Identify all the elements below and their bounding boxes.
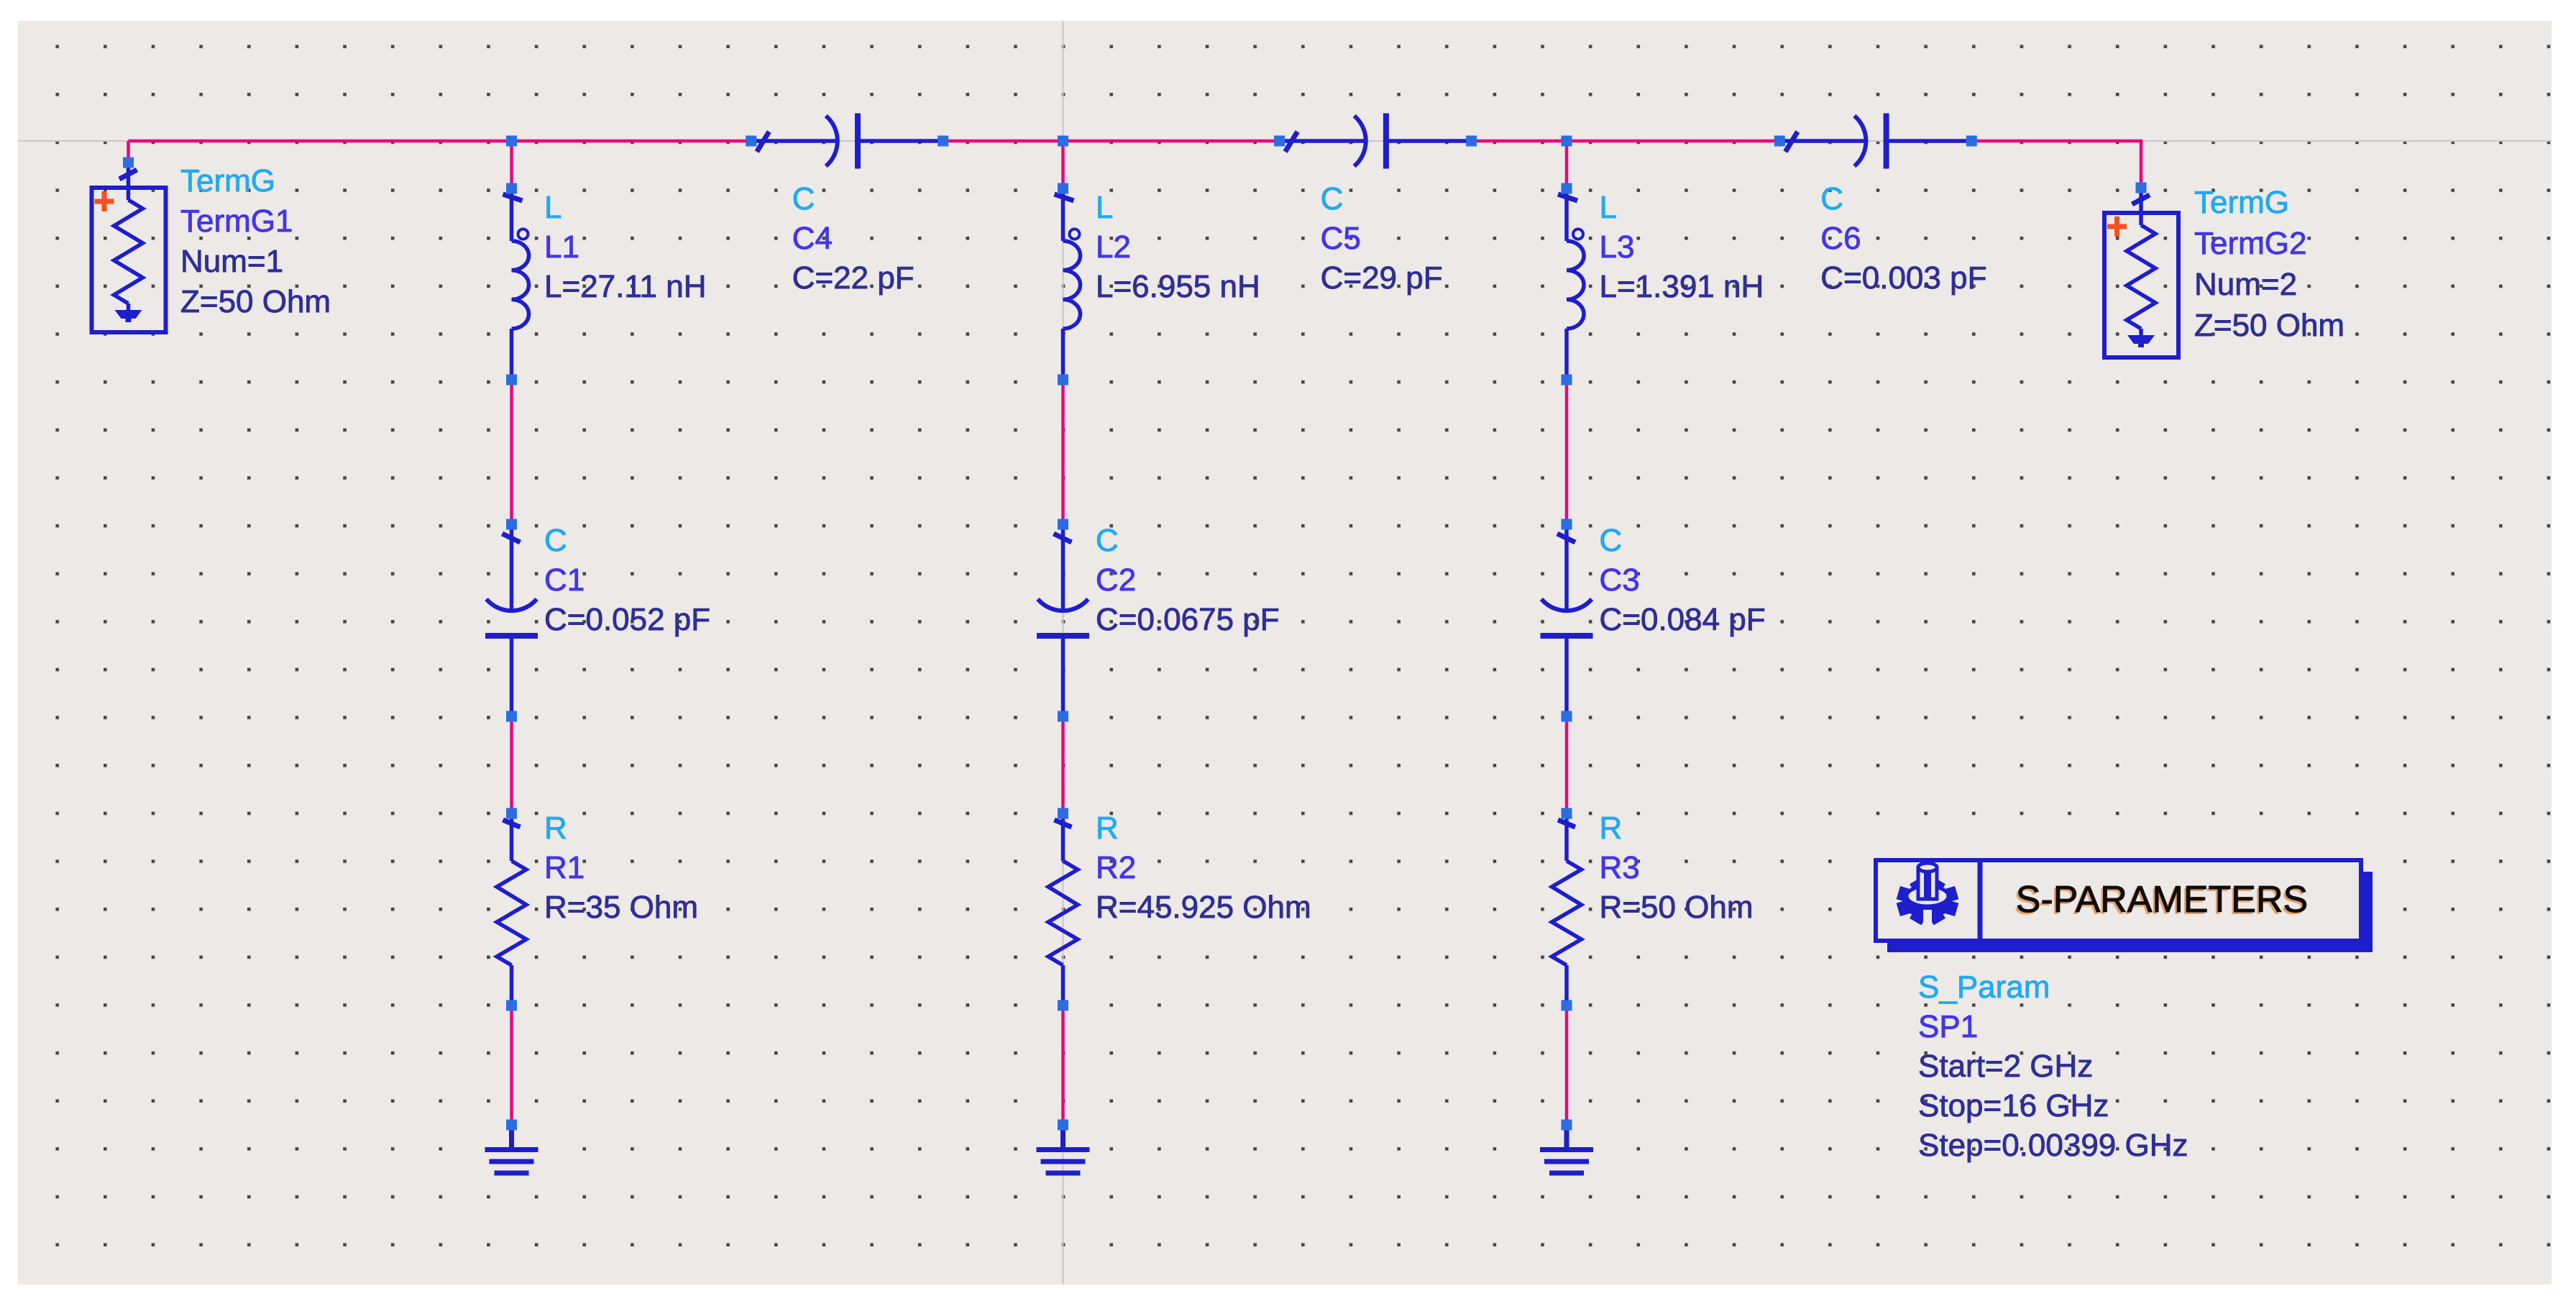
- ground branch 2: [1037, 1125, 1090, 1173]
- wire: branch 1 L-to-C segment: [510, 380, 513, 524]
- port TermG2: [2104, 188, 2178, 357]
- svg-text:L=6.955 nH: L=6.955 nH: [1096, 269, 1260, 304]
- svg-text:C3: C3: [1600, 562, 1640, 598]
- node: ground pin branch3: [1562, 1120, 1572, 1131]
- inductor L3: [1558, 188, 1584, 380]
- wire: TermG2 drop: [2140, 141, 2143, 188]
- wire: branch 1 top stub: [510, 141, 513, 188]
- node: ground pin branch1: [506, 1120, 517, 1131]
- svg-text:Z=50 Ohm: Z=50 Ohm: [180, 284, 331, 319]
- ground branch 1: [485, 1125, 538, 1173]
- svg-text:L=1.391 nH: L=1.391 nH: [1600, 269, 1764, 304]
- node: L2 pin1: [1058, 183, 1068, 194]
- x axis line: [18, 140, 2552, 142]
- gear icon: [1898, 863, 1956, 927]
- node: C1 pin2: [506, 711, 517, 722]
- node: bus junction branch3: [1562, 136, 1572, 147]
- svg-text:R1: R1: [544, 850, 585, 885]
- svg-text:R3: R3: [1600, 850, 1640, 885]
- node: C2 pin2: [1058, 711, 1068, 722]
- svg-text:L2: L2: [1096, 229, 1131, 265]
- node: L1 pin1: [506, 183, 517, 194]
- svg-text:R: R: [1096, 811, 1119, 846]
- svg-text:C=29 pF: C=29 pF: [1321, 260, 1443, 296]
- svg-text:C1: C1: [544, 562, 585, 598]
- capacitor C2: [1037, 524, 1089, 716]
- wire: bus segment C5 to C6: [1472, 140, 1780, 143]
- wire: branch 3 L-to-C segment: [1565, 380, 1569, 524]
- wire: branch 3 C-to-R segment: [1565, 716, 1569, 813]
- svg-text:R=50 Ohm: R=50 Ohm: [1600, 890, 1754, 925]
- node: bus junction branch1: [506, 136, 517, 147]
- resistor R1: [497, 813, 526, 1005]
- svg-text:R=45.925 Ohm: R=45.925 Ohm: [1096, 890, 1311, 925]
- capacitor C6: [1779, 114, 1971, 169]
- svg-text:Num=1: Num=1: [180, 244, 283, 279]
- resistor R3: [1552, 813, 1582, 1005]
- svg-text:C: C: [792, 181, 815, 216]
- S-PARAMETERS controller box: [1887, 872, 2373, 952]
- node: C5 pin1: [1274, 136, 1285, 147]
- wire: bus segment C4 to C5: [943, 140, 1280, 143]
- node: R2 pin2: [1058, 1000, 1068, 1011]
- svg-text:R: R: [1600, 811, 1623, 846]
- capacitor C1: [485, 524, 538, 716]
- node: C6 pin1: [1774, 136, 1785, 147]
- svg-text:TermG2: TermG2: [2194, 226, 2306, 261]
- svg-text:Z=50 Ohm: Z=50 Ohm: [2194, 308, 2344, 343]
- svg-text:C5: C5: [1321, 221, 1361, 256]
- node: R1 pin1: [506, 808, 517, 819]
- svg-text:L: L: [1096, 190, 1113, 225]
- wire: TermG1 stub: [127, 141, 130, 163]
- node: L3 pin1: [1562, 183, 1572, 194]
- svg-text:R2: R2: [1096, 850, 1136, 885]
- capacitor C4: [751, 114, 943, 169]
- svg-text:R=35 Ohm: R=35 Ohm: [544, 890, 698, 925]
- capacitor C3: [1541, 524, 1593, 716]
- svg-text:TermG1: TermG1: [180, 204, 293, 239]
- svg-text:SP1: SP1: [1918, 1009, 1978, 1044]
- svg-text:L3: L3: [1600, 229, 1635, 265]
- svg-text:L1: L1: [544, 229, 579, 265]
- node: C2 pin1: [1058, 519, 1068, 530]
- svg-text:C=0.084 pF: C=0.084 pF: [1600, 602, 1766, 637]
- svg-text:TermG: TermG: [2194, 185, 2289, 220]
- svg-text:C=0.052 pF: C=0.052 pF: [544, 602, 710, 637]
- ground branch 3: [1540, 1125, 1593, 1173]
- node: L2 pin2: [1058, 375, 1068, 385]
- wire: branch 1 R-to-ground segment: [510, 1005, 513, 1125]
- svg-text:C2: C2: [1096, 562, 1136, 598]
- node: L3 pin2: [1562, 375, 1572, 385]
- y axis line: [1063, 21, 1064, 1285]
- node: R2 pin1: [1058, 808, 1068, 819]
- svg-text:C: C: [1820, 181, 1843, 216]
- wire: branch 2 C-to-R segment: [1061, 716, 1065, 813]
- wire: branch 1 C-to-R segment: [510, 716, 513, 813]
- svg-text:C=0.0675 pF: C=0.0675 pF: [1096, 602, 1280, 637]
- svg-text:Start=2 GHz: Start=2 GHz: [1918, 1049, 2093, 1084]
- wire: bus segment TermG1 to C4: [129, 140, 751, 143]
- resistor R2: [1048, 813, 1078, 1005]
- node: L1 pin2: [506, 375, 517, 385]
- node: C1 pin1: [506, 519, 517, 530]
- node: C5 pin2: [1466, 136, 1477, 147]
- node: R1 pin2: [506, 1000, 517, 1011]
- svg-text:C=0.003 pF: C=0.003 pF: [1820, 260, 1986, 296]
- svg-text:C: C: [544, 523, 567, 558]
- wire: branch 2 L-to-C segment: [1061, 380, 1065, 524]
- svg-text:Stop=16 GHz: Stop=16 GHz: [1918, 1088, 2109, 1123]
- svg-text:S-PARAMETERS: S-PARAMETERS: [2016, 879, 2308, 921]
- svg-text:L=27.11 nH: L=27.11 nH: [544, 269, 706, 304]
- svg-text:C: C: [1600, 523, 1623, 558]
- wire: branch 2 R-to-ground segment: [1061, 1005, 1065, 1125]
- node: C3 pin2: [1562, 711, 1572, 722]
- svg-text:C=22 pF: C=22 pF: [792, 260, 915, 296]
- port TermG1: [92, 163, 166, 332]
- svg-text:TermG: TermG: [180, 163, 275, 199]
- svg-text:C6: C6: [1820, 221, 1861, 256]
- wire: branch 2 top stub: [1061, 141, 1065, 188]
- svg-text:Num=2: Num=2: [2194, 267, 2297, 302]
- svg-text:C4: C4: [792, 221, 833, 256]
- svg-text:C: C: [1096, 523, 1119, 558]
- svg-text:S_Param: S_Param: [1918, 969, 2050, 1005]
- node: TermG1 pin: [123, 158, 134, 168]
- svg-text:L: L: [544, 190, 562, 225]
- svg-text:R: R: [544, 811, 567, 846]
- node: C3 pin1: [1562, 519, 1572, 530]
- node: TermG2 pin: [2136, 183, 2147, 193]
- node: bus junction branch2: [1058, 136, 1068, 147]
- node: C4 pin2: [938, 136, 948, 147]
- node: C4 pin1: [746, 136, 756, 147]
- node: R3 pin2: [1562, 1000, 1572, 1011]
- svg-text:Step=0.00399 GHz: Step=0.00399 GHz: [1918, 1128, 2188, 1163]
- node: C6 pin2: [1966, 136, 1977, 147]
- node: R3 pin1: [1562, 808, 1572, 819]
- wire: branch 3 top stub: [1565, 141, 1569, 188]
- inductor L2: [1055, 188, 1081, 380]
- capacitor C5: [1280, 114, 1472, 169]
- wire: branch 3 R-to-ground segment: [1565, 1005, 1569, 1125]
- node: ground pin branch2: [1058, 1120, 1068, 1131]
- svg-text:L: L: [1600, 190, 1617, 225]
- svg-text:C: C: [1321, 181, 1344, 216]
- inductor L1: [503, 188, 529, 380]
- wire: bus segment C6 to TermG2: [1971, 140, 2142, 143]
